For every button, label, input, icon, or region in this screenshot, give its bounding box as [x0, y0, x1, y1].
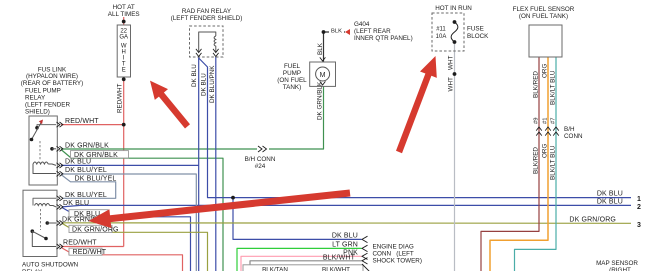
svg-text:(RIGHT: (RIGHT — [609, 267, 631, 271]
svg-text:DK BLU/YEL: DK BLU/YEL — [75, 176, 117, 183]
svg-text:BLK/LT BLU: BLK/LT BLU — [550, 145, 557, 180]
wire RED/WHT ASD second (boxed) — [62, 248, 69, 255]
junction dot below fuse link — [122, 77, 126, 81]
svg-text:SHIELD): SHIELD) — [25, 109, 50, 116]
wire DK BLU/PNK rad fan relay 3 vertical — [215, 57, 217, 271]
wire DK BLU rad fan relay 1 vertical — [198, 57, 200, 271]
relay K2 coil L2 — [35, 204, 50, 206]
label box DK GRN/ORG (ASD boxed) — [69, 225, 112, 232]
svg-text:BLK/RED: BLK/RED — [533, 71, 540, 98]
svg-text:DK BLU: DK BLU — [597, 191, 623, 198]
relay K3 dashed box — [190, 26, 224, 57]
svg-text:DK BLU: DK BLU — [65, 158, 91, 165]
label box DK GRN/BLK 2 — [71, 151, 129, 158]
wire BLK/WHT to engine diag conn — [249, 265, 251, 271]
svg-text:RAD FAN RELAY: RAD FAN RELAY — [182, 8, 232, 15]
relay K2 switch to RED/WHT — [32, 231, 56, 246]
fuse F2 element — [451, 22, 458, 42]
label box DK BLU (ASD boxed) — [69, 210, 108, 217]
svg-text:3: 3 — [637, 222, 641, 229]
wire RED/WHT ASD relay to main — [61, 246, 124, 248]
svg-text:2: 2 — [637, 204, 641, 211]
ground point G404 red arrow — [345, 29, 350, 35]
relay K1 terminal chevrons — [57, 122, 63, 127]
annotation arrow 2 — [396, 56, 437, 153]
svg-text:FUSE: FUSE — [467, 26, 484, 33]
svg-text:#1: #1 — [543, 118, 549, 124]
svg-text:RELAY: RELAY — [25, 95, 46, 102]
svg-text:DK BLU/YEL: DK BLU/YEL — [65, 167, 107, 174]
svg-text:INNER QTR PANEL): INNER QTR PANEL) — [354, 35, 413, 42]
svg-text:BLK: BLK — [331, 29, 342, 35]
svg-text:BLK/WHT: BLK/WHT — [323, 255, 356, 262]
svg-text:(ON FUEL: (ON FUEL — [277, 77, 307, 84]
sensor FLEX FUEL box — [529, 25, 562, 57]
fusible link F1 22GA WHITE — [117, 25, 130, 77]
svg-text:DK BLU: DK BLU — [597, 199, 623, 206]
connector B/H CONN 24 — [257, 145, 269, 153]
relay K2 terminal chevrons — [57, 196, 63, 201]
annotation arrow 1 — [150, 81, 190, 129]
wire RED/WHT fuel pump relay to main — [61, 124, 124, 126]
junction dot DK BLU bus — [231, 196, 235, 200]
wire PNK to engine diag conn — [241, 256, 362, 271]
relay K3 internal — [199, 32, 216, 52]
svg-text:HOT AT: HOT AT — [113, 4, 135, 11]
svg-text:#24: #24 — [255, 163, 266, 170]
wire BLK/RED flex fuel sensor — [481, 57, 539, 271]
wire DK BLU rad fan relay 2 to engine bus 1 — [199, 58, 631, 198]
wire DK GRN/BLK fuel pump relay to fuel pump via B/H conn — [61, 87, 324, 150]
junction dot top — [122, 20, 126, 24]
svg-text:B/H: B/H — [564, 126, 575, 133]
wire DK BLU fuel pump relay coil — [61, 164, 199, 166]
wire DK BLU/YEL fuel pump relay to bottom — [61, 174, 196, 271]
svg-text:AUTO SHUTDOWN: AUTO SHUTDOWN — [22, 262, 79, 269]
wire DK GRN/BLK second (boxed) down to bottom — [61, 150, 71, 158]
svg-text:RED/WHT: RED/WHT — [117, 83, 124, 113]
relay K1 coil L1 — [33, 162, 48, 164]
relay K3 terminal chevrons — [196, 49, 202, 53]
svg-text:LT GRN: LT GRN — [332, 241, 358, 248]
svg-text:DK GRN/BLK: DK GRN/BLK — [65, 142, 109, 149]
relay K1 fixed contact — [50, 147, 54, 151]
relay K1 box — [29, 116, 57, 185]
svg-text:DK BLU/YEL: DK BLU/YEL — [65, 192, 107, 199]
wire LT GRN to engine diag conn — [237, 248, 362, 271]
svg-text:(LEFT FENDER SHIELD): (LEFT FENDER SHIELD) — [171, 15, 243, 22]
svg-text:FUEL: FUEL — [284, 63, 301, 70]
relay K1 switch contact feed — [37, 125, 56, 127]
wire DK BLU to engine diag conn — [233, 198, 362, 240]
wire RED/WHT vertical from fuse link — [123, 17, 125, 25]
wire DK BLU ASD bus 2 — [62, 205, 631, 207]
connector B/H CONN chevrons — [536, 127, 542, 131]
svg-text:DK GRN/ORG: DK GRN/ORG — [72, 227, 119, 234]
svg-text:BLK/WHT: BLK/WHT — [322, 267, 350, 271]
svg-text:#9: #9 — [534, 118, 540, 124]
svg-text:WHT: WHT — [448, 56, 455, 70]
relay K1 armature — [32, 123, 42, 140]
svg-text:ENGINE DIAG: ENGINE DIAG — [373, 244, 414, 251]
svg-text:WHT: WHT — [448, 77, 455, 91]
svg-text:DK BLU: DK BLU — [332, 232, 358, 239]
wire DK BLU ASD second (boxed) down — [62, 208, 69, 212]
wire DK GRN/ORG ASD bus 3 — [62, 222, 631, 225]
svg-text:DK GRN/BLK: DK GRN/BLK — [316, 81, 323, 120]
wire DK BLU/YEL U-link fuel pump relay to ASD relay — [61, 175, 116, 199]
svg-text:BLK/TAN: BLK/TAN — [262, 267, 288, 271]
svg-text:(REAR OF BATTERY): (REAR OF BATTERY) — [21, 80, 83, 87]
svg-text:CONN: CONN — [564, 133, 583, 140]
svg-text:HOT IN RUN: HOT IN RUN — [435, 5, 472, 12]
junction dot RED/WHT tee — [122, 123, 126, 127]
junction dot fuel pump ground — [322, 30, 326, 34]
svg-text:DK BLU/PNK: DK BLU/PNK — [209, 65, 216, 103]
wire BLK fuel pump ground — [323, 32, 325, 62]
svg-text:BLK/LT BLU: BLK/LT BLU — [550, 70, 557, 105]
svg-text:FUEL PUMP: FUEL PUMP — [25, 88, 61, 95]
svg-text:RED/WHT: RED/WHT — [73, 249, 107, 256]
svg-text:(LEFT FENDER: (LEFT FENDER — [25, 102, 70, 109]
svg-text:DK BLU: DK BLU — [191, 64, 198, 87]
label box RED/WHT (ASD boxed) — [69, 248, 102, 255]
svg-text:RED/WHT: RED/WHT — [65, 118, 99, 125]
svg-text:DK BLU: DK BLU — [63, 200, 89, 207]
svg-text:10A: 10A — [436, 34, 447, 40]
svg-text:G404: G404 — [354, 21, 370, 28]
svg-text:RED/WHT: RED/WHT — [63, 240, 97, 247]
relay K2 coil feed — [33, 198, 56, 205]
svg-text:ORG: ORG — [542, 64, 549, 78]
junction dot WHT — [453, 72, 457, 76]
svg-text:#7: #7 — [551, 118, 557, 124]
svg-text:M: M — [320, 72, 326, 79]
svg-text:GA: GA — [119, 35, 128, 41]
motor M1 fuel pump box — [310, 62, 336, 86]
svg-text:#11: #11 — [436, 27, 446, 33]
annotation arrow 3 — [89, 190, 351, 229]
wire BLK/LT BLU flex fuel sensor — [515, 57, 557, 271]
svg-text:BLOCK: BLOCK — [467, 33, 489, 40]
fuse F2 #11 10A dashed box — [432, 13, 464, 51]
svg-text:1: 1 — [637, 196, 641, 203]
wire DK GRN/ORG second (boxed) down — [62, 223, 69, 227]
svg-text:ORG: ORG — [542, 144, 549, 158]
wire WHT from fuse block down — [454, 42, 456, 271]
svg-text:BLK: BLK — [317, 42, 324, 55]
svg-text:DK BLU: DK BLU — [200, 73, 207, 96]
relay K2 ASD box — [23, 190, 57, 256]
svg-text:SHOCK TOWER): SHOCK TOWER) — [373, 258, 422, 265]
svg-text:(LEFT REAR: (LEFT REAR — [354, 28, 391, 35]
relay K2 armature — [31, 229, 35, 233]
svg-text:ALL TIMES: ALL TIMES — [108, 11, 140, 18]
relay K1 dashed link — [39, 141, 41, 161]
svg-text:TANK): TANK) — [283, 84, 301, 91]
svg-text:CONN (LEFT: CONN (LEFT — [373, 251, 414, 258]
relay K2 dashed link — [40, 209, 42, 230]
svg-text:DK GRN/ORG: DK GRN/ORG — [569, 217, 616, 224]
label box BLK/TAN BLK/WHT bottom — [243, 265, 363, 271]
label BLK ground horizontal — [329, 27, 344, 34]
svg-text:B/H CONN: B/H CONN — [245, 156, 276, 163]
svg-text:(ON FUEL TANK): (ON FUEL TANK) — [519, 13, 568, 20]
wire ORG flex fuel sensor — [490, 57, 548, 271]
svg-text:BLK/RED: BLK/RED — [533, 147, 540, 174]
svg-text:PUMP: PUMP — [283, 70, 301, 77]
relay K2 fixed contact — [46, 221, 50, 225]
svg-text:E: E — [122, 68, 126, 74]
svg-text:MAP SENSOR: MAP SENSOR — [596, 260, 638, 267]
